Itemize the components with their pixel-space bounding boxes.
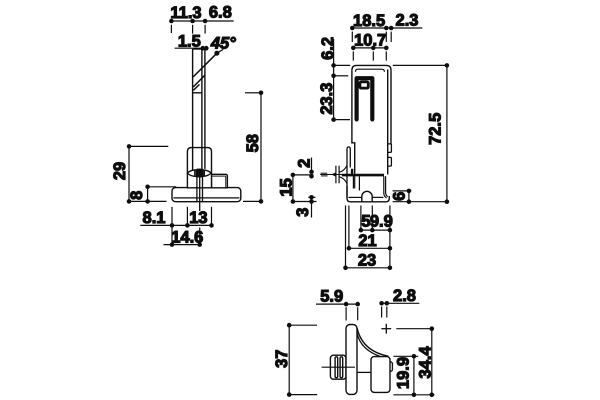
svg-text:8.1: 8.1: [143, 209, 166, 227]
dimension line 23: [343, 266, 392, 271]
svg-text:13: 13: [189, 209, 207, 227]
snap tab 1: [388, 144, 392, 153]
right step block: [212, 174, 228, 188]
dimension 6: [393, 189, 412, 204]
post lines inside clamp: [193, 148, 205, 171]
connecting bar line: [357, 371, 371, 373]
base inner bottom line: [173, 197, 239, 199]
svg-text:8: 8: [128, 191, 146, 200]
dimension 6.2 / 23.3: [331, 39, 350, 122]
dimension 19.9: [393, 354, 418, 397]
knob (ribbed button): [330, 355, 346, 379]
dimension 14.6: [164, 242, 203, 247]
dimension line 1.5: [175, 46, 209, 51]
right block: [371, 357, 390, 393]
body left wall with step: [352, 70, 355, 173]
dimension 72.5: [393, 63, 450, 204]
svg-text:2: 2: [296, 159, 314, 168]
dimension 15: [291, 173, 317, 204]
svg-text:21: 21: [358, 232, 376, 250]
dimension line 5 / 9.9: [359, 228, 393, 233]
adjusting screw side view: [331, 166, 347, 184]
latch U channel (thick): [357, 78, 373, 119]
centre cross mark: [381, 324, 391, 334]
inner verticals below base top: [353, 176, 359, 190]
svg-text:10.7: 10.7: [354, 32, 386, 50]
screw centre line: [320, 174, 359, 176]
svg-text:29: 29: [111, 162, 129, 180]
screw hole plane reference line: [396, 328, 432, 330]
dimension 37: [287, 323, 317, 397]
clamp nut lens: [188, 170, 211, 177]
svg-text:1.5: 1.5: [178, 32, 201, 50]
screw boss dark block: [351, 169, 353, 177]
svg-text:72.5: 72.5: [427, 113, 445, 145]
nut knurl hatch: [195, 170, 205, 177]
post (stem) of left view: [193, 49, 205, 170]
inner top face line: [355, 69, 384, 72]
body right outer wall: [390, 70, 392, 144]
body outline: top cap: [352, 65, 391, 70]
dimension 5.9: [316, 302, 360, 321]
dimension 2.8: [379, 301, 419, 318]
svg-text:18.5: 18.5: [353, 12, 385, 30]
chamfer hatch lines: [193, 75, 205, 90]
svg-text:2.3: 2.3: [396, 12, 419, 30]
base top thick line: [342, 174, 384, 177]
centre line break marks: [321, 172, 328, 174]
svg-text:15: 15: [278, 178, 296, 196]
svg-text:5.9: 5.9: [320, 288, 343, 306]
svg-text:9.9: 9.9: [370, 213, 393, 231]
foot inner wall doubles: [384, 176, 388, 198]
45 degree chamfer leader: [193, 49, 223, 77]
curved flange inner: [357, 333, 381, 356]
svg-text:14.6: 14.6: [171, 228, 203, 246]
svg-text:34.4: 34.4: [417, 346, 435, 379]
svg-text:58: 58: [244, 134, 262, 152]
svg-text:23.3: 23.3: [318, 83, 336, 115]
body right inner wall: [387, 69, 389, 174]
svg-text:2.8: 2.8: [393, 287, 416, 305]
dimension line 10.7: [351, 46, 389, 61]
dimension 8.1 and 13: [140, 207, 214, 245]
blade: [346, 325, 357, 395]
dimension 2: [293, 158, 314, 179]
dimension line 21: [347, 246, 393, 251]
svg-text:6.2: 6.2: [319, 37, 337, 60]
knob rib slot 2: [340, 357, 343, 378]
foot bottom notch: [362, 191, 372, 202]
svg-text:23: 23: [358, 251, 376, 269]
dark screw boss blob: [197, 169, 203, 178]
svg-text:45°: 45°: [210, 34, 236, 52]
dimension 34.4: [393, 326, 434, 397]
bottom dimensions 5 / 9.9 / 21 / 23 extension lines: [346, 206, 390, 268]
latch square hole: [360, 82, 368, 88]
right boss bump: [389, 362, 392, 371]
knob centre line: [322, 366, 355, 368]
dimension 8: [145, 185, 176, 204]
curved flange outer: [357, 328, 389, 357]
foot outline: [347, 186, 389, 202]
clamp body: [187, 148, 211, 188]
dimension 29: [127, 144, 169, 204]
dimension 3: [308, 195, 315, 218]
svg-text:6: 6: [391, 192, 409, 201]
foot inner line: [348, 196, 383, 198]
base plate: [172, 188, 241, 202]
svg-text:19.9: 19.9: [394, 357, 412, 389]
step inner lines: [212, 175, 226, 177]
svg-text:3: 3: [294, 208, 312, 217]
dimension 58: [243, 91, 263, 204]
dimension line 18.5 / 2.3: [350, 26, 422, 42]
svg-text:6.8: 6.8: [209, 3, 232, 21]
svg-text:11.3: 11.3: [170, 4, 201, 22]
knob rib slot 1: [335, 357, 338, 378]
snap tab 2: [388, 157, 392, 166]
flexible finger: [347, 147, 350, 197]
dimension line 11.3 / 6.8: [169, 19, 234, 34]
svg-text:37: 37: [273, 350, 291, 368]
centre line bundle below nut: [197, 169, 203, 212]
